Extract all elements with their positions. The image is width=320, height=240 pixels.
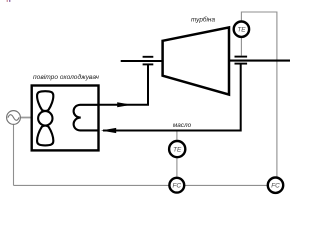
- pipe: cooler to turbine bearing (cold oil): [99, 64, 149, 105]
- pipe: turbine bearing to cooler (масло): [103, 64, 241, 131]
- right shaft: [229, 60, 290, 62]
- wire: TE2 to FC1: [176, 158, 178, 177]
- left shaft: [121, 60, 163, 62]
- arrow on cold oil pipe: [117, 102, 131, 107]
- turbine body: [163, 27, 229, 94]
- fan blade bottom: [37, 126, 53, 146]
- svg-text:TE: TE: [237, 27, 246, 34]
- left bearing top bar: [143, 56, 154, 58]
- svg-text:TE: TE: [173, 147, 182, 154]
- wire: motor to bottom signal bus (vertical): [13, 124, 15, 185]
- AC motor M: [7, 111, 21, 125]
- instrument TE1 (turbine bearing temperature): [234, 22, 249, 37]
- wire: oil pipe to TE2: [176, 131, 178, 140]
- svg-text:турбіна: турбіна: [191, 16, 215, 24]
- instrument TE2 (oil temperature): [169, 141, 185, 157]
- svg-text:FC: FC: [271, 183, 280, 190]
- screen artifact pink tick: [7, 0, 8, 2]
- screen artifact purple tick: [9, 0, 10, 2]
- wire: motor to fan: [21, 117, 38, 119]
- svg-text:FC: FC: [173, 183, 182, 190]
- wire: TE1 up, across top, down right side to FC2: [241, 12, 277, 177]
- svg-text:масло: масло: [173, 122, 192, 129]
- oil coil in cooler: [74, 105, 99, 131]
- wire: bottom signal bus to FC2: [14, 184, 268, 186]
- instrument FC2: [268, 178, 283, 193]
- arrow on масло pipe: [101, 128, 116, 133]
- instrument FC1: [169, 178, 184, 193]
- right bearing bottom bar: [235, 63, 248, 65]
- air cooler box: [32, 86, 99, 151]
- svg-text:повітро охолоджувач: повітро охолоджувач: [33, 73, 100, 81]
- fan hub: [38, 111, 52, 125]
- wire: TE1 to right bearing: [240, 38, 242, 56]
- right bearing top bar: [235, 56, 248, 58]
- fan blade top: [37, 91, 53, 111]
- left bearing bottom bar: [143, 63, 154, 65]
